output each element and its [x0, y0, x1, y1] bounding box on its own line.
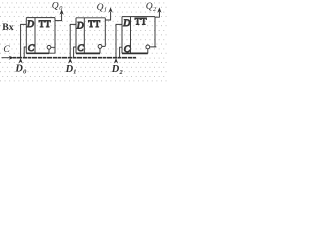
arrowhead of D0 input — [18, 58, 22, 64]
label D0 — [14, 64, 27, 76]
flip-flop U1 box — [26, 18, 55, 54]
svg-text:Вх: Вх — [2, 22, 13, 33]
flip-flop U3 box — [122, 17, 155, 54]
flip-flop U2 box — [76, 18, 105, 54]
svg-text:Q: Q — [97, 3, 104, 13]
arrowhead of D2 input — [114, 58, 118, 64]
background halftone dot grid — [0, 0, 167, 85]
svg-text:TT: TT — [135, 17, 147, 27]
svg-text:D: D — [65, 64, 74, 75]
wire: input Bx to D of U1 — [21, 24, 27, 57]
arrowhead of Q0 output — [60, 9, 64, 14]
flip-flop U3 bottom edge (thick) — [122, 52, 148, 54]
wire: D2 input riser to D of U3 — [116, 24, 122, 57]
svg-text:C: C — [28, 43, 35, 54]
svg-text:C: C — [77, 43, 84, 54]
arrowhead of C input — [9, 56, 14, 60]
svg-text:D: D — [14, 64, 23, 75]
svg-text:2: 2 — [153, 6, 156, 13]
arrowhead of Q2 output — [157, 7, 161, 12]
label D2 — [111, 64, 124, 76]
inversion bubble on U1 — [47, 45, 55, 53]
wire: C hook to U1 — [24, 47, 26, 58]
inversion bubble on U3 — [146, 45, 156, 53]
svg-text:1: 1 — [104, 7, 107, 14]
svg-text:Q: Q — [52, 1, 59, 11]
svg-text:C: C — [124, 44, 131, 55]
label Q0 — [52, 1, 64, 12]
wire: Q2 output of U3 — [155, 12, 159, 18]
wire: C hook to U3 — [120, 47, 122, 57]
svg-text:TT: TT — [88, 20, 100, 30]
label Q2 — [146, 2, 156, 13]
wire: Q1 output of U2 — [105, 12, 110, 21]
arrowhead of D1 input — [68, 58, 72, 64]
wire: Q0 output of U1 — [55, 14, 62, 21]
wire: D1 input riser to D of U2 — [70, 24, 76, 57]
svg-text:D: D — [76, 20, 84, 31]
flip-flop U1 bottom edge (thick) — [26, 52, 49, 54]
inversion bubble on U2 — [98, 45, 105, 54]
svg-text:D: D — [111, 64, 120, 75]
svg-text:1: 1 — [73, 69, 76, 76]
svg-text:D: D — [26, 19, 34, 30]
label Q1 — [97, 3, 107, 14]
clock line C (thick horizontal bus) — [13, 57, 136, 59]
arrowhead of Q1 output — [109, 7, 113, 12]
svg-text:TT: TT — [39, 20, 51, 30]
svg-text:Q: Q — [146, 2, 153, 12]
wire: C hook to U2 — [74, 47, 76, 58]
wire: C line arrow lead-in — [2, 57, 11, 59]
label D1 — [65, 64, 77, 76]
svg-text:D: D — [122, 18, 130, 29]
flip-flop U2 bottom edge (thick) — [76, 52, 100, 54]
svg-text:C: C — [3, 44, 10, 55]
